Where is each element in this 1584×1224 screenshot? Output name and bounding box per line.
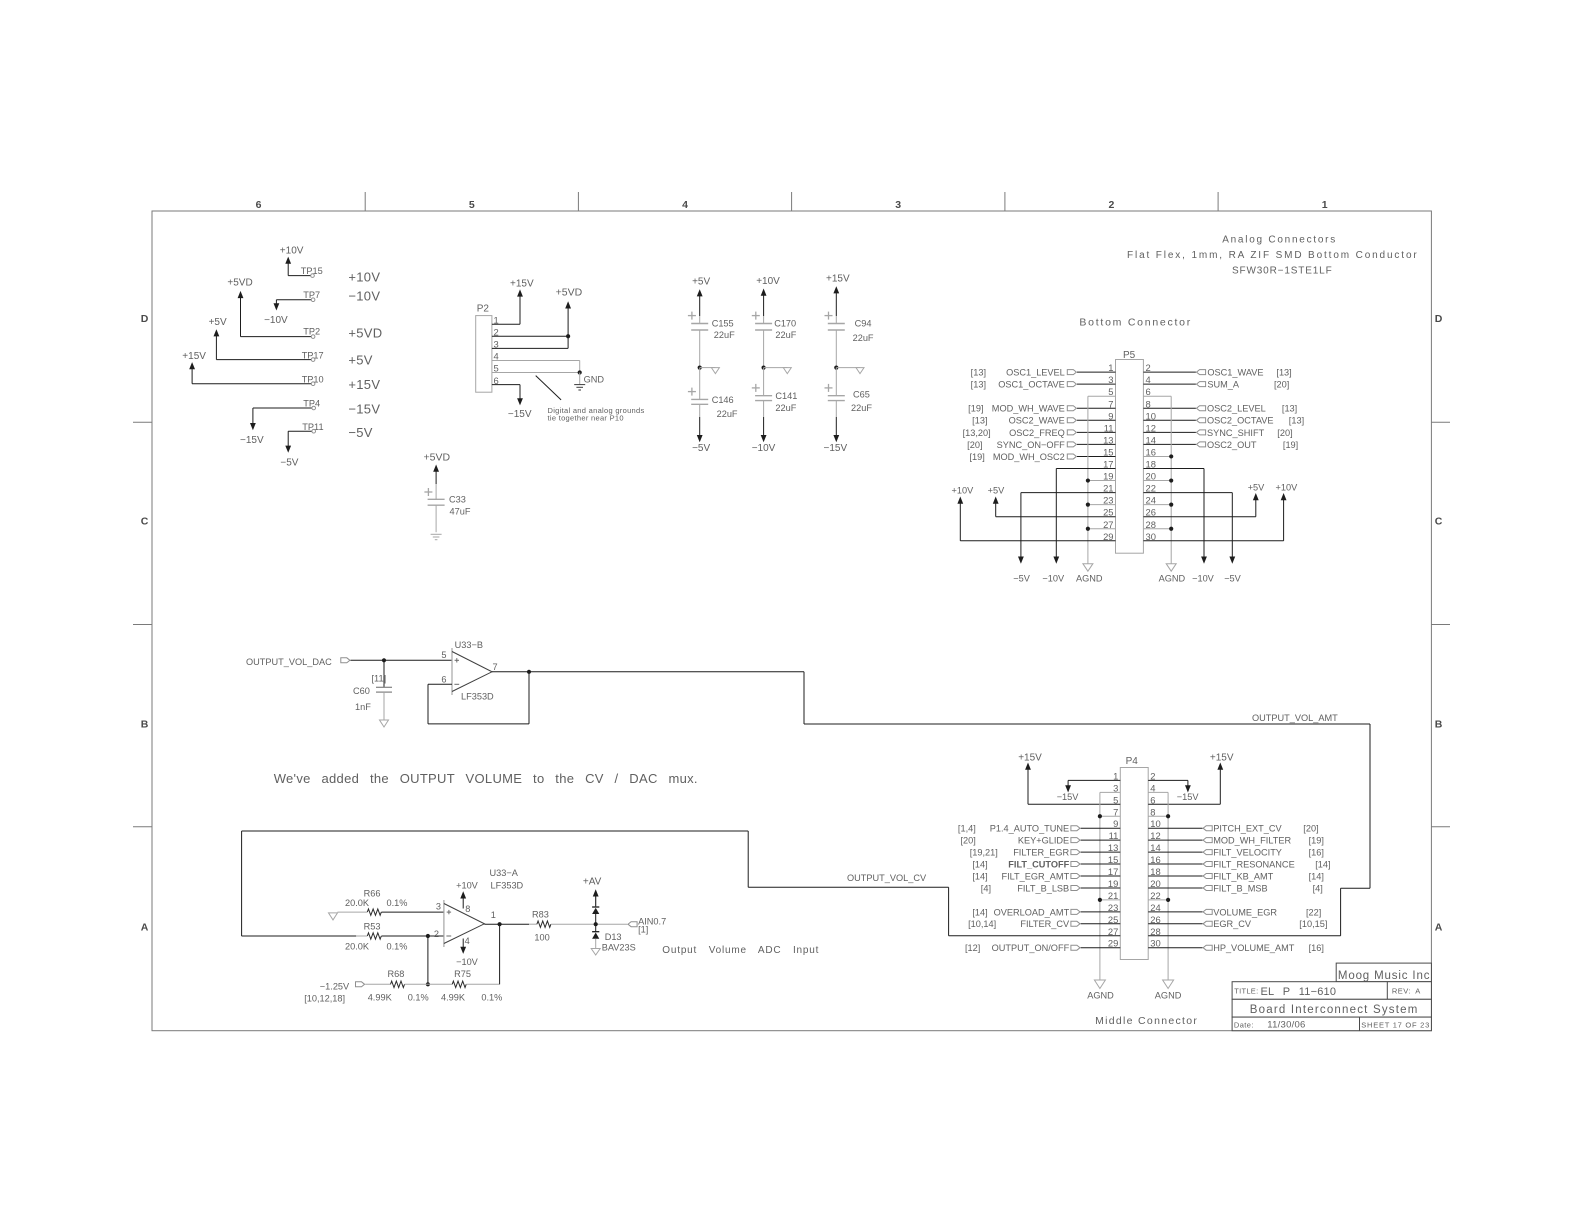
- svg-text:16: 16: [1146, 446, 1156, 457]
- svg-text:+AV: +AV: [583, 877, 602, 888]
- svg-text:11: 11: [1104, 422, 1114, 433]
- svg-text:27: 27: [1108, 926, 1118, 937]
- svg-text:tie together near P10: tie together near P10: [548, 414, 624, 423]
- svg-text:FILT_B_LSB: FILT_B_LSB: [1017, 883, 1069, 893]
- svg-text:+15V: +15V: [1210, 753, 1234, 764]
- svg-text:AGND: AGND: [1155, 991, 1182, 1001]
- svg-text:13: 13: [1103, 434, 1113, 445]
- svg-text:21: 21: [1103, 483, 1113, 494]
- svg-text:0.1%: 0.1%: [387, 898, 408, 908]
- svg-text:A: A: [141, 922, 149, 934]
- svg-text:22uF: 22uF: [775, 330, 796, 340]
- svg-text:[14]: [14]: [972, 907, 987, 917]
- svg-text:3: 3: [1108, 374, 1113, 385]
- svg-text:25: 25: [1103, 507, 1113, 518]
- svg-text:C146: C146: [712, 395, 734, 405]
- svg-text:21: 21: [1108, 890, 1118, 901]
- svg-text:+5VD: +5VD: [227, 278, 252, 289]
- svg-text:6: 6: [256, 199, 262, 211]
- svg-text:22uF: 22uF: [714, 330, 735, 340]
- svg-text:22uF: 22uF: [853, 333, 874, 343]
- svg-text:[13]: [13]: [1282, 404, 1297, 414]
- svg-text:OUTPUT_VOL_AMT: OUTPUT_VOL_AMT: [1252, 713, 1338, 723]
- svg-text:OSC2_WAVE: OSC2_WAVE: [1009, 416, 1065, 426]
- svg-text:3: 3: [1113, 782, 1118, 793]
- svg-text:−5V: −5V: [1224, 573, 1241, 583]
- svg-text:−15V: −15V: [1177, 792, 1200, 802]
- svg-text:REV: A: REV: A: [1392, 986, 1421, 995]
- svg-text:−5V: −5V: [1013, 573, 1030, 583]
- svg-text:8: 8: [1150, 806, 1155, 817]
- svg-text:19: 19: [1103, 471, 1113, 482]
- svg-text:R68: R68: [388, 969, 405, 979]
- svg-text:100: 100: [534, 932, 549, 942]
- svg-text:U33−A: U33−A: [490, 868, 519, 878]
- svg-text:D: D: [141, 313, 149, 325]
- svg-text:1nF: 1nF: [355, 702, 371, 712]
- svg-text:B: B: [1435, 719, 1443, 731]
- svg-text:2: 2: [434, 929, 439, 939]
- svg-text:[16]: [16]: [1309, 848, 1324, 858]
- svg-text:Moog Music Inc: Moog Music Inc: [1338, 970, 1430, 982]
- svg-text:[11]: [11]: [372, 674, 387, 684]
- svg-text:22: 22: [1150, 890, 1160, 901]
- svg-text:6: 6: [441, 675, 446, 685]
- svg-text:OSC2_OUT: OSC2_OUT: [1207, 440, 1257, 450]
- svg-text:5: 5: [1113, 794, 1118, 805]
- svg-text:−15V: −15V: [824, 443, 848, 454]
- svg-text:OSC2_FREQ: OSC2_FREQ: [1009, 428, 1065, 438]
- svg-text:[14]: [14]: [1309, 871, 1324, 881]
- svg-text:10: 10: [1146, 410, 1156, 421]
- svg-text:[12]: [12]: [965, 943, 980, 953]
- svg-text:R75: R75: [454, 969, 471, 979]
- svg-text:4: 4: [682, 199, 688, 211]
- svg-text:0.1%: 0.1%: [387, 942, 408, 952]
- svg-text:−10V: −10V: [456, 957, 479, 967]
- svg-text:4.99K: 4.99K: [441, 992, 466, 1002]
- svg-text:+15V: +15V: [510, 278, 534, 289]
- svg-text:R53: R53: [364, 922, 381, 932]
- svg-text:C65: C65: [853, 389, 870, 399]
- svg-text:C60: C60: [353, 686, 370, 696]
- svg-text:+10V: +10V: [756, 276, 780, 287]
- svg-text:[10,12,18]: [10,12,18]: [304, 993, 345, 1003]
- svg-text:24: 24: [1146, 495, 1156, 506]
- svg-text:1: 1: [1322, 199, 1328, 211]
- svg-text:[14]: [14]: [972, 859, 987, 869]
- svg-text:+15V: +15V: [348, 377, 380, 392]
- svg-text:[13]: [13]: [1289, 416, 1304, 426]
- svg-text:[1,4]: [1,4]: [958, 824, 976, 834]
- svg-text:30: 30: [1146, 531, 1156, 542]
- svg-text:+5V: +5V: [1248, 483, 1265, 493]
- svg-text:[22]: [22]: [1306, 907, 1321, 917]
- svg-text:C155: C155: [712, 318, 734, 328]
- svg-text:B: B: [141, 719, 149, 731]
- svg-text:[20]: [20]: [1277, 428, 1292, 438]
- svg-text:+10V: +10V: [456, 880, 479, 890]
- svg-text:47uF: 47uF: [450, 507, 471, 517]
- svg-text:+5VD: +5VD: [556, 287, 583, 299]
- svg-text:+5V: +5V: [209, 317, 227, 328]
- svg-text:25: 25: [1108, 914, 1118, 925]
- svg-text:+5V: +5V: [348, 353, 372, 368]
- svg-text:18: 18: [1150, 866, 1160, 877]
- svg-text:20.0K: 20.0K: [345, 898, 370, 908]
- svg-text:OUTPUT_ON/OFF: OUTPUT_ON/OFF: [992, 943, 1070, 953]
- svg-text:GND: GND: [584, 375, 605, 385]
- svg-text:+15V: +15V: [1018, 753, 1042, 764]
- svg-text:5: 5: [1108, 386, 1113, 397]
- svg-text:OSC1_LEVEL: OSC1_LEVEL: [1006, 368, 1065, 378]
- svg-text:20.0K: 20.0K: [345, 942, 370, 952]
- svg-text:FILTER_EGR: FILTER_EGR: [1013, 848, 1069, 858]
- svg-text:MOD_WH_FILTER: MOD_WH_FILTER: [1213, 836, 1291, 846]
- svg-text:FILT_B_MSB: FILT_B_MSB: [1213, 883, 1267, 893]
- svg-text:D: D: [1435, 313, 1443, 325]
- svg-text:AGND: AGND: [1159, 573, 1186, 583]
- svg-text:−10V: −10V: [348, 289, 380, 304]
- svg-text:[13]: [13]: [972, 416, 987, 426]
- svg-text:2: 2: [1150, 770, 1155, 781]
- svg-text:12: 12: [1150, 830, 1160, 841]
- svg-text:15: 15: [1103, 446, 1113, 457]
- svg-text:FILT_RESONANCE: FILT_RESONANCE: [1213, 859, 1295, 869]
- svg-text:MOD_WH_OSC2: MOD_WH_OSC2: [993, 452, 1065, 462]
- svg-text:22: 22: [1146, 483, 1156, 494]
- svg-text:C141: C141: [775, 391, 797, 401]
- svg-text:[16]: [16]: [1309, 943, 1324, 953]
- svg-text:23: 23: [1108, 902, 1118, 913]
- svg-text:BAV23S: BAV23S: [602, 943, 636, 953]
- svg-text:8: 8: [1146, 398, 1151, 409]
- svg-text:−1.25V: −1.25V: [320, 981, 350, 991]
- svg-text:22uF: 22uF: [775, 403, 796, 413]
- svg-text:AGND: AGND: [1076, 573, 1103, 583]
- svg-text:26: 26: [1150, 914, 1160, 925]
- svg-text:SYNC_SHIFT: SYNC_SHIFT: [1207, 428, 1265, 438]
- svg-text:+5VD: +5VD: [424, 452, 451, 464]
- svg-text:[20]: [20]: [1274, 380, 1289, 390]
- svg-text:0.1%: 0.1%: [481, 992, 502, 1002]
- svg-text:[13,20]: [13,20]: [963, 428, 991, 438]
- svg-text:SFW30R−1STE1LF: SFW30R−1STE1LF: [1232, 266, 1333, 277]
- svg-text:6: 6: [1150, 794, 1155, 805]
- svg-text:[13]: [13]: [971, 368, 986, 378]
- svg-text:+10V: +10V: [952, 486, 975, 496]
- svg-text:[4]: [4]: [981, 883, 991, 893]
- svg-text:LF353D: LF353D: [491, 880, 524, 890]
- svg-text:5: 5: [469, 199, 475, 211]
- svg-text:A: A: [1435, 922, 1443, 934]
- svg-text:28: 28: [1146, 519, 1156, 530]
- svg-text:14: 14: [1146, 434, 1156, 445]
- svg-text:C: C: [1435, 516, 1443, 528]
- svg-text:[19]: [19]: [968, 404, 983, 414]
- svg-text:20: 20: [1146, 471, 1156, 482]
- svg-text:8: 8: [465, 904, 470, 914]
- svg-text:22uF: 22uF: [717, 409, 738, 419]
- svg-text:D13: D13: [605, 932, 622, 942]
- svg-text:−10V: −10V: [264, 315, 288, 326]
- svg-text:[10,15]: [10,15]: [1299, 919, 1327, 929]
- svg-text:29: 29: [1108, 938, 1118, 949]
- svg-text:OSC2_OCTAVE: OSC2_OCTAVE: [1207, 416, 1274, 426]
- svg-text:17: 17: [1108, 866, 1118, 877]
- svg-text:P4: P4: [1126, 756, 1139, 767]
- svg-text:P1.4_AUTO_TUNE: P1.4_AUTO_TUNE: [990, 824, 1069, 834]
- svg-text:FILT_EGR_AMT: FILT_EGR_AMT: [1001, 871, 1069, 881]
- svg-text:0.1%: 0.1%: [408, 992, 429, 1002]
- svg-text:4: 4: [1150, 782, 1155, 793]
- svg-text:U33−B: U33−B: [455, 640, 483, 650]
- svg-text:[14]: [14]: [1315, 859, 1330, 869]
- svg-text:OVERLOAD_AMT: OVERLOAD_AMT: [994, 907, 1070, 917]
- svg-text:VOLUME_EGR: VOLUME_EGR: [1213, 907, 1277, 917]
- svg-text:−10V: −10V: [1192, 573, 1215, 583]
- svg-text:+5V: +5V: [988, 486, 1005, 496]
- svg-text:TITLE:: TITLE:: [1234, 986, 1258, 995]
- svg-text:Bottom Connector: Bottom Connector: [1079, 317, 1192, 329]
- svg-text:[19]: [19]: [1283, 440, 1298, 450]
- svg-text:19: 19: [1108, 878, 1118, 889]
- svg-text:P2: P2: [477, 303, 490, 314]
- svg-text:SYNC_ON−OFF: SYNC_ON−OFF: [997, 440, 1066, 450]
- svg-text:11: 11: [1109, 830, 1119, 841]
- svg-text:−5V: −5V: [280, 458, 298, 469]
- svg-text:Date:: Date:: [1234, 1021, 1254, 1030]
- svg-text:1: 1: [1108, 362, 1113, 373]
- svg-text:29: 29: [1103, 531, 1113, 542]
- svg-text:+15V: +15V: [826, 273, 850, 284]
- svg-text:4: 4: [1146, 374, 1151, 385]
- svg-text:6: 6: [1146, 386, 1151, 397]
- svg-text:FILT_CUTOFF: FILT_CUTOFF: [1008, 859, 1069, 869]
- svg-text:OSC2_LEVEL: OSC2_LEVEL: [1207, 404, 1266, 414]
- svg-text:28: 28: [1150, 926, 1160, 937]
- svg-text:7: 7: [1108, 398, 1113, 409]
- svg-text:22uF: 22uF: [851, 403, 872, 413]
- svg-text:SHEET 17 OF 23: SHEET 17 OF 23: [1361, 1021, 1430, 1030]
- svg-text:OUTPUT_VOL_DAC: OUTPUT_VOL_DAC: [246, 657, 332, 667]
- svg-text:Output Volume ADC Input: Output Volume ADC Input: [662, 945, 819, 956]
- svg-text:KEY+GLIDE: KEY+GLIDE: [1018, 836, 1069, 846]
- svg-text:[19,21]: [19,21]: [970, 848, 998, 858]
- svg-text:OSC1_OCTAVE: OSC1_OCTAVE: [998, 380, 1065, 390]
- svg-text:13: 13: [1108, 842, 1118, 853]
- svg-text:[20]: [20]: [960, 836, 975, 846]
- svg-text:[14]: [14]: [972, 871, 987, 881]
- svg-text:[13]: [13]: [1276, 368, 1291, 378]
- svg-text:15: 15: [1108, 854, 1118, 865]
- svg-text:+5V: +5V: [692, 277, 710, 288]
- svg-text:SUM_A: SUM_A: [1207, 380, 1240, 390]
- svg-text:16: 16: [1150, 854, 1160, 865]
- svg-text:3: 3: [436, 902, 441, 912]
- svg-text:+5VD: +5VD: [348, 325, 382, 340]
- svg-text:[13]: [13]: [971, 380, 986, 390]
- svg-text:FILTER_CV: FILTER_CV: [1020, 919, 1070, 929]
- svg-text:20: 20: [1150, 878, 1160, 889]
- svg-text:2: 2: [1108, 199, 1114, 211]
- svg-text:7: 7: [493, 662, 498, 672]
- svg-text:7: 7: [1113, 806, 1118, 817]
- svg-text:26: 26: [1146, 507, 1156, 518]
- svg-text:10: 10: [1150, 818, 1160, 829]
- svg-text:Middle Connector: Middle Connector: [1095, 1015, 1198, 1027]
- svg-text:4.99K: 4.99K: [368, 992, 393, 1002]
- svg-text:2: 2: [1146, 362, 1151, 373]
- svg-text:[1]: [1]: [638, 925, 648, 935]
- svg-text:EL P 11−610: EL P 11−610: [1261, 986, 1337, 998]
- svg-text:11/30/06: 11/30/06: [1267, 1020, 1305, 1031]
- svg-text:−5V: −5V: [692, 443, 710, 454]
- svg-text:−10V: −10V: [1042, 573, 1065, 583]
- svg-text:Analog Connectors: Analog Connectors: [1222, 234, 1337, 245]
- svg-text:27: 27: [1103, 519, 1113, 530]
- svg-text:[19]: [19]: [969, 452, 984, 462]
- svg-text:−15V: −15V: [1057, 792, 1080, 802]
- svg-text:+10V: +10V: [280, 246, 304, 257]
- svg-text:OSC1_WAVE: OSC1_WAVE: [1207, 368, 1263, 378]
- svg-text:9: 9: [1113, 818, 1118, 829]
- svg-text:3: 3: [895, 199, 901, 211]
- svg-text:[19]: [19]: [1309, 836, 1324, 846]
- svg-text:C94: C94: [855, 319, 872, 329]
- svg-text:We've added the OUTPUT VOLUME: We've added the OUTPUT VOLUME to the CV …: [274, 771, 698, 786]
- svg-text:+10V: +10V: [1276, 483, 1299, 493]
- svg-text:[10,14]: [10,14]: [968, 919, 996, 929]
- svg-text:FILT_VELOCITY: FILT_VELOCITY: [1213, 848, 1282, 858]
- svg-text:18: 18: [1146, 459, 1156, 470]
- svg-text:30: 30: [1150, 938, 1160, 949]
- svg-text:−5V: −5V: [348, 425, 372, 440]
- svg-text:12: 12: [1146, 422, 1156, 433]
- svg-text:PITCH_EXT_CV: PITCH_EXT_CV: [1213, 824, 1282, 834]
- svg-text:C170: C170: [774, 318, 796, 328]
- svg-text:−15V: −15V: [348, 402, 380, 417]
- svg-text:C33: C33: [449, 495, 466, 505]
- svg-text:EGR_CV: EGR_CV: [1213, 919, 1252, 929]
- svg-text:1: 1: [491, 910, 496, 920]
- svg-text:24: 24: [1150, 902, 1160, 913]
- svg-text:R83: R83: [532, 910, 549, 920]
- svg-text:23: 23: [1103, 495, 1113, 506]
- svg-text:[4]: [4]: [1313, 883, 1323, 893]
- svg-text:14: 14: [1150, 842, 1160, 853]
- svg-text:[20]: [20]: [967, 440, 982, 450]
- svg-text:FILT_KB_AMT: FILT_KB_AMT: [1213, 871, 1273, 881]
- svg-text:+15V: +15V: [182, 351, 206, 362]
- svg-text:LF353D: LF353D: [461, 692, 494, 702]
- svg-text:9: 9: [1108, 410, 1113, 421]
- svg-text:Flat Flex, 1mm, RA ZIF SMD Bot: Flat Flex, 1mm, RA ZIF SMD Bottom Conduc…: [1127, 250, 1419, 261]
- svg-text:C: C: [141, 516, 149, 528]
- svg-text:[20]: [20]: [1303, 824, 1318, 834]
- svg-text:+10V: +10V: [348, 270, 380, 285]
- svg-text:OUTPUT_VOL_CV: OUTPUT_VOL_CV: [847, 873, 927, 883]
- svg-text:1: 1: [1113, 770, 1118, 781]
- svg-text:17: 17: [1103, 459, 1113, 470]
- svg-text:−10V: −10V: [752, 443, 776, 454]
- svg-text:4: 4: [465, 936, 470, 946]
- svg-text:AGND: AGND: [1087, 991, 1114, 1001]
- svg-text:−15V: −15V: [240, 435, 264, 446]
- svg-text:5: 5: [441, 650, 446, 660]
- svg-text:−15V: −15V: [508, 409, 532, 420]
- svg-text:MOD_WH_WAVE: MOD_WH_WAVE: [992, 404, 1065, 414]
- svg-text:R66: R66: [364, 888, 381, 898]
- svg-text:Board Interconnect System: Board Interconnect System: [1250, 1004, 1419, 1016]
- svg-text:HP_VOLUME_AMT: HP_VOLUME_AMT: [1213, 943, 1295, 953]
